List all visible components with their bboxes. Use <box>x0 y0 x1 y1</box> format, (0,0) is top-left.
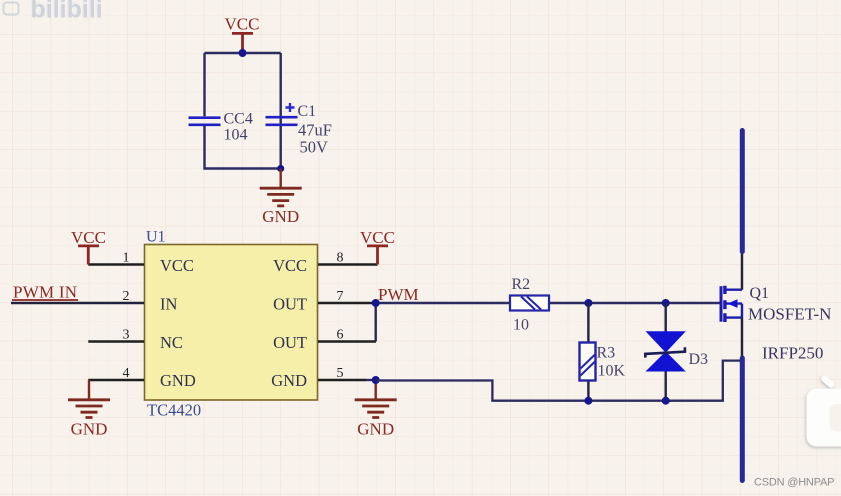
pin 2 wire (PWM_IN) <box>11 302 144 304</box>
ground GND (left, pin 4) <box>68 380 110 439</box>
transistor Q1 MOSFET-N symbol <box>721 286 742 322</box>
svg-text:NC: NC <box>160 333 183 352</box>
svg-text:VCC: VCC <box>71 228 106 247</box>
power symbol VCC (top) <box>225 15 260 53</box>
svg-text:D3: D3 <box>689 351 709 368</box>
svg-text:6: 6 <box>337 328 344 343</box>
svg-text:4: 4 <box>123 366 130 381</box>
node junction R3 bottom <box>584 397 592 405</box>
resistor R3 <box>580 343 626 381</box>
svg-text:Q1: Q1 <box>750 285 770 302</box>
svg-text:GND: GND <box>271 371 307 390</box>
diode D3 (bidirectional TVS) <box>645 331 708 371</box>
svg-text:VCC: VCC <box>225 15 260 34</box>
net label PWM_IN <box>12 283 78 302</box>
wire drain rail (thick) <box>740 131 745 252</box>
pin 6 wire <box>318 340 376 342</box>
svg-text:TC4420: TC4420 <box>147 401 201 420</box>
svg-text:VCC: VCC <box>160 256 194 275</box>
transistor Q1 labels <box>748 285 831 363</box>
pin 1 wire <box>88 263 144 265</box>
node junction PWM <box>372 299 380 307</box>
svg-text:IN: IN <box>160 295 177 314</box>
svg-text:OUT: OUT <box>273 295 307 314</box>
wire pin 5 extension <box>366 379 376 381</box>
pin 7 wire <box>318 302 376 304</box>
svg-text:U1: U1 <box>146 229 166 246</box>
resistor R2 <box>510 276 549 334</box>
power symbol VCC (left of U1) <box>71 228 106 265</box>
watermark bilibili (top left) <box>4 0 103 24</box>
svg-text:VCC: VCC <box>360 228 395 247</box>
wire drain stub <box>741 252 743 290</box>
capacitor CC4 <box>189 111 253 144</box>
wire R3 branch top <box>587 303 589 343</box>
pin 4 wire <box>88 379 144 381</box>
svg-text:10K: 10K <box>598 363 626 380</box>
op-amp U1 body (TC4420 driver IC) <box>145 229 318 420</box>
svg-text:IRFP250: IRFP250 <box>762 344 823 363</box>
power symbol VCC (right of U1) <box>360 228 395 265</box>
svg-text:CSDN @HNPAP: CSDN @HNPAP <box>754 477 834 489</box>
svg-text:MOSFET-N: MOSFET-N <box>748 305 831 324</box>
svg-text:3: 3 <box>123 328 130 343</box>
svg-text:GND: GND <box>71 420 108 439</box>
wire bottom run (pin5 to source net) <box>376 361 741 401</box>
svg-text:PWM: PWM <box>378 285 419 304</box>
svg-text:GND: GND <box>357 420 394 439</box>
svg-text:VCC: VCC <box>273 256 307 275</box>
wire D3 branch top <box>665 303 667 332</box>
svg-text:2: 2 <box>123 289 130 304</box>
svg-text:R3: R3 <box>597 345 616 362</box>
wire D3 branch bottom <box>665 372 667 401</box>
capacitor C1 (polarized) <box>266 103 332 157</box>
svg-text:C1: C1 <box>298 103 317 120</box>
node junction pin 5 <box>372 376 380 384</box>
svg-text:50V: 50V <box>300 138 329 157</box>
node junction at cap loop bottom <box>277 165 284 172</box>
node junction D3 top <box>662 299 670 307</box>
svg-text:104: 104 <box>224 127 248 144</box>
svg-text:R2: R2 <box>512 276 531 293</box>
ground GND (top section) <box>260 169 302 227</box>
svg-text:OUT: OUT <box>273 333 307 352</box>
wire R3 branch bottom <box>587 381 589 401</box>
wire source stub <box>741 318 743 358</box>
svg-text:10: 10 <box>513 317 529 334</box>
pin 3 wire <box>88 340 144 342</box>
svg-text:8: 8 <box>337 251 344 266</box>
wire pin 7 node to R2 <box>376 302 510 304</box>
node junction D3 bottom <box>662 397 670 405</box>
wire source rail (thick) <box>740 358 745 481</box>
svg-text:7: 7 <box>337 289 344 304</box>
pin 5 wire <box>318 379 366 381</box>
svg-text:1: 1 <box>123 251 130 266</box>
wire PWM node to pin 6 <box>375 303 377 342</box>
pin 8 wire <box>318 263 378 265</box>
svg-text:CC4: CC4 <box>224 111 253 128</box>
wire R2 to MOSFET gate <box>549 302 720 304</box>
node junction R3 top <box>584 299 592 307</box>
svg-text:PWM IN: PWM IN <box>13 283 77 302</box>
watermark TV logo (bottom right) <box>807 374 841 446</box>
svg-text:GND: GND <box>262 207 299 226</box>
wire top capacitor loop <box>205 53 281 169</box>
svg-text:5: 5 <box>337 366 344 381</box>
svg-text:GND: GND <box>160 371 196 390</box>
ground GND (right, pin 5) <box>355 380 397 439</box>
node junction at VCC top <box>239 49 247 57</box>
svg-text:bilibili: bilibili <box>31 0 103 24</box>
